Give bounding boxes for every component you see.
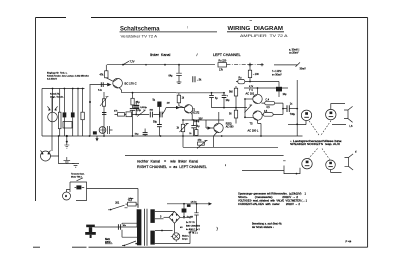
wire long mid row <box>192 119 225 121</box>
svg-text:träge: träge <box>129 197 135 200</box>
wire J2 bottom <box>297 121 346 125</box>
pot P3 feedback <box>198 142 205 145</box>
capacitor C25 bus <box>143 133 148 135</box>
svg-text:AC 080: AC 080 <box>226 126 234 129</box>
svg-text:TF 78 x 1: TF 78 x 1 <box>186 232 198 234</box>
resistor R17 emitter oval <box>265 101 275 105</box>
svg-text:Kristall-TA: Kristall-TA <box>50 92 60 95</box>
svg-text:10µ: 10µ <box>283 94 288 96</box>
transformer core <box>145 209 148 246</box>
title WIRING DIAGRAM <box>227 21 288 38</box>
wire motor feed <box>87 189 139 208</box>
svg-text:5mA℧: 5mA℧ <box>187 216 193 219</box>
svg-text:Kristall-Tonabn. bzw. Lautspr.: Kristall-Tonabn. bzw. Lautspr. 4-16Ω Mik… <box>47 74 90 77</box>
rectifier D1 bridge <box>169 212 180 224</box>
svg-text:lampe: lampe <box>182 239 189 241</box>
jack J4 DIN <box>302 159 312 169</box>
wire right channel leads <box>226 161 286 166</box>
capacitor C17 output <box>287 105 289 112</box>
resistor R22 emitter <box>195 130 198 136</box>
note supply values block <box>180 222 219 234</box>
separator line mid <box>125 154 284 156</box>
note remark block <box>252 223 282 229</box>
note measurement text block <box>238 192 308 206</box>
connector inside <box>76 185 81 189</box>
svg-text:1M: 1M <box>167 103 170 105</box>
capacitor C1b blob <box>71 112 75 117</box>
volume pot arrow <box>100 97 109 107</box>
resistor R9 <box>177 95 180 103</box>
wire J3 top <box>331 104 345 110</box>
switch S1 motor <box>77 178 84 181</box>
svg-text:R25Ω: R25Ω <box>226 123 232 125</box>
wire T1 emitter row <box>122 92 176 94</box>
pot P2 bias <box>181 124 184 131</box>
svg-text:/: / <box>187 26 188 30</box>
svg-text:der Schalt.-Variante ↓: der Schalt.-Variante ↓ <box>252 226 274 229</box>
svg-text:0,7V: 0,7V <box>249 86 254 88</box>
svg-text:1A 5m: 1A 5m <box>191 201 197 204</box>
svg-text:CURRENT-VALUES with meter: CURRENT-VALUES with meter 20Ω/V → 2 <box>238 203 301 206</box>
svg-text:AMPLIFIER TV 72 A: AMPLIFIER TV 72 A <box>240 34 288 38</box>
svg-text:e≈ 30mV: e≈ 30mV <box>272 73 282 76</box>
svg-text:Netz: Netz <box>105 238 111 241</box>
svg-text:↓ Lautsprecheranschlüsse bzw.: ↓ Lautsprecheranschlüsse bzw. <box>290 140 343 143</box>
wire emitter join <box>282 103 284 114</box>
capacitor C10 coupling <box>209 95 214 97</box>
title Schaltschema <box>120 25 218 38</box>
svg-text:5x TF 78: 5x TF 78 <box>186 222 195 224</box>
resistor R21 tone <box>126 112 132 117</box>
svg-text:LS: LS <box>350 125 353 128</box>
svg-text:BC 170 C: BC 170 C <box>125 81 137 85</box>
svg-text:Bemerkung: s. auch Best.-Nr.: Bemerkung: s. auch Best.-Nr. <box>252 223 282 226</box>
resistor R18 emitter oval <box>263 113 273 117</box>
svg-text:linker Kanal: linker Kanal <box>150 53 170 57</box>
border frame right <box>367 18 369 248</box>
svg-text:Spannungs- gemessen mit Röhren: Spannungs- gemessen mit Röhrenvoltm. (≥2… <box>238 192 307 195</box>
wire lower run <box>288 124 297 126</box>
svg-text:Tonmotor bzw.: Tonmotor bzw. <box>71 172 85 175</box>
wire collector T4 row <box>244 87 288 89</box>
svg-text:BC172: BC172 <box>192 113 200 115</box>
capacitor C13 electrolytic <box>222 95 227 97</box>
capacitor C8 rail decoupler <box>176 65 182 84</box>
switch S2 mains <box>108 205 128 210</box>
wire left ground run <box>59 136 75 164</box>
wire left rail <box>41 89 43 137</box>
transistor T3 AC180 <box>214 123 223 132</box>
pot P4 bias arrow <box>245 105 253 113</box>
wire supply rail top <box>107 64 215 66</box>
note Kristall-TA labels <box>50 92 64 98</box>
svg-text:P 44: P 44 <box>346 239 352 243</box>
svg-text:SPEAKER SOCKETS resp. AUX: SPEAKER SOCKETS resp. AUX <box>290 143 341 146</box>
lamp LP1 scale <box>155 223 175 233</box>
fuse F2 <box>238 79 245 83</box>
pot arrow tone <box>137 110 146 117</box>
svg-text:T 4: T 4 <box>249 88 253 92</box>
svg-text:Motor TM 3: Motor TM 3 <box>71 175 82 178</box>
svg-text:Strom- (messwerte): Strom- (messwerte) 20Ω/V → 2 <box>238 196 299 199</box>
wire chain line to supply <box>227 64 264 66</box>
node 7,7V label <box>123 61 129 64</box>
lamp L1 <box>99 127 106 134</box>
diode D2 blob <box>183 204 185 209</box>
wire feed row <box>212 107 248 109</box>
resistor R2 input <box>81 112 84 120</box>
node below bus <box>66 141 68 143</box>
wire measurement arrow top right <box>274 62 300 66</box>
wire primary taps <box>122 223 137 237</box>
svg-text:100µ: 100µ <box>194 121 200 123</box>
wire secondary bottom <box>155 231 190 244</box>
capacitor C7 blob <box>157 102 161 107</box>
wire drop with arrow <box>96 136 98 138</box>
wire plus rail <box>180 217 190 218</box>
svg-text:Schaltschema: Schaltschema <box>120 25 160 32</box>
note input text block <box>47 71 90 80</box>
svg-text:AC 180 L: AC 180 L <box>248 128 259 132</box>
svg-text:0,2 250mV: 0,2 250mV <box>47 78 58 80</box>
svg-text:10µ: 10µ <box>226 100 231 102</box>
svg-text:Skalen-: Skalen- <box>182 236 189 238</box>
wire tone row <box>132 114 159 116</box>
resistor R3 <box>102 99 105 106</box>
svg-text:Eingänge für Tonb. u.: Eingänge für Tonb. u. <box>47 71 68 74</box>
dashed cross lower <box>309 149 318 159</box>
svg-text:LEFT CHANNEL: LEFT CHANNEL <box>213 53 241 57</box>
capacitor C6 pair <box>108 126 113 134</box>
svg-text:30mV: 30mV <box>300 67 307 70</box>
ground symbol motor <box>64 157 71 164</box>
plug LS1 <box>344 106 353 122</box>
svg-text:ca 26mV: ca 26mV <box>289 51 299 54</box>
wire right rail <box>296 80 298 136</box>
svg-text:←100: ←100 <box>253 74 260 76</box>
note motor text <box>71 172 85 178</box>
resistor R7 emitter <box>131 98 134 105</box>
jack J5 DIN <box>326 160 336 170</box>
svg-text:Verstärker TV 72 A: Verstärker TV 72 A <box>121 33 158 38</box>
transistor T4 AC181 <box>253 94 262 103</box>
ground small <box>64 145 69 148</box>
wire T2 base <box>166 107 184 109</box>
resistor R12 <box>234 88 237 96</box>
wire base rail T4 T5 <box>244 99 246 117</box>
transformer TR1 secondary bottom <box>150 231 154 245</box>
capacitor C2 on base wire <box>101 82 103 87</box>
shield sleeve <box>58 112 61 129</box>
border frame bottom <box>33 246 368 248</box>
capacitor C4 <box>130 108 135 110</box>
note speaker text <box>290 140 343 146</box>
dashed cross upper <box>309 121 319 136</box>
border frame left <box>35 18 37 202</box>
shield box <box>63 122 72 129</box>
svg-text:7,7V: 7,7V <box>130 60 135 63</box>
pickup P1 crystal <box>48 112 58 122</box>
switch S3 <box>122 241 136 246</box>
capacitor C11 base <box>160 112 162 118</box>
wire secondary top leads <box>155 211 175 213</box>
svg-text:50µ: 50µ <box>153 122 158 124</box>
wire supply row arrow <box>167 203 209 205</box>
ground symbol <box>72 164 79 168</box>
jack J3 DIN <box>326 109 336 119</box>
wire J4 bottom step <box>242 166 300 174</box>
capacitor C14 <box>191 126 196 128</box>
svg-text:RIGHT CHANNEL = as LEFT CHA: RIGHT CHANNEL = as LEFT CHANNEL <box>137 165 207 169</box>
wire T1 base rail <box>89 85 91 136</box>
svg-text:64µ: 64µ <box>169 75 174 77</box>
capacitor C5 <box>102 113 106 115</box>
transistor T5 AC180 <box>253 111 262 120</box>
junction blob near bus <box>93 131 97 134</box>
motor M1 <box>63 192 71 200</box>
svg-text:Ru 220: Ru 220 <box>219 59 227 62</box>
transistor T1 BC170C <box>113 78 123 88</box>
svg-text:M: M <box>65 194 67 198</box>
plug X1 mains <box>95 226 138 228</box>
capacitor C12 electrolytic <box>157 125 162 127</box>
wire T2 collector row <box>176 92 224 94</box>
resistor R20 tone <box>118 113 125 117</box>
transformer TR1 secondary top <box>150 209 154 223</box>
bus ground rail <box>42 135 303 137</box>
wire T1 base <box>90 84 108 86</box>
svg-text:AC 181: AC 181 <box>246 92 255 96</box>
svg-text:rechter Kanal = wie li: rechter Kanal = wie linker Kanal <box>137 160 198 164</box>
resistor R1 above T1 <box>105 71 108 78</box>
capacitor C20 mains <box>118 224 120 230</box>
capacitor C21 <box>190 204 199 231</box>
resistor R13 <box>234 110 237 118</box>
wire J5 bottom <box>331 170 342 173</box>
transformer TR1 primary <box>137 209 141 245</box>
wire T5 collector down <box>258 120 261 136</box>
wire drop <box>77 89 79 137</box>
resistor R15 driver <box>249 65 251 71</box>
resistor R4 fuse box on rail <box>218 63 227 67</box>
svg-text:WIRING DIAGRAM: WIRING DIAGRAM <box>228 26 284 32</box>
wire input bus <box>42 88 85 90</box>
pickup P2 mic <box>41 151 51 161</box>
capacitor C9 <box>193 76 195 82</box>
plug LS2 <box>345 154 354 170</box>
capacitor C16 blob <box>278 82 280 87</box>
svg-text:VOLTAGES- read. obtained with: VOLTAGES- read. obtained with VALVE VOLT… <box>238 200 308 203</box>
motor box <box>70 182 87 201</box>
capacitor C23 black <box>133 105 139 107</box>
header linker Kanal / LEFT CHANNEL <box>150 53 241 57</box>
wire feedback row <box>183 136 278 147</box>
wire T2 emitter <box>191 112 193 120</box>
svg-text:261: 261 <box>115 201 120 204</box>
svg-text:0,4µ: 0,4µ <box>136 109 141 112</box>
svg-text:700µ: 700µ <box>290 114 296 116</box>
svg-text:20V: 20V <box>199 118 204 120</box>
svg-text:0,015µ: 0,015µ <box>140 107 147 109</box>
wire rail x52 <box>51 96 53 151</box>
svg-text:4x B30 C 1x 2: 4x B30 C 1x 2 <box>186 229 201 231</box>
capacitor C1a blob <box>63 112 67 117</box>
jack J2 DIN <box>301 110 311 120</box>
border frame top <box>36 17 368 19</box>
svg-text:B30 C800/500: B30 C800/500 <box>186 226 201 228</box>
note Netz <box>105 238 112 244</box>
capacitor C24 <box>150 112 152 118</box>
fuse F1 <box>128 202 137 206</box>
transistor T2 BC172 <box>184 105 192 113</box>
wire driver row <box>247 81 279 83</box>
